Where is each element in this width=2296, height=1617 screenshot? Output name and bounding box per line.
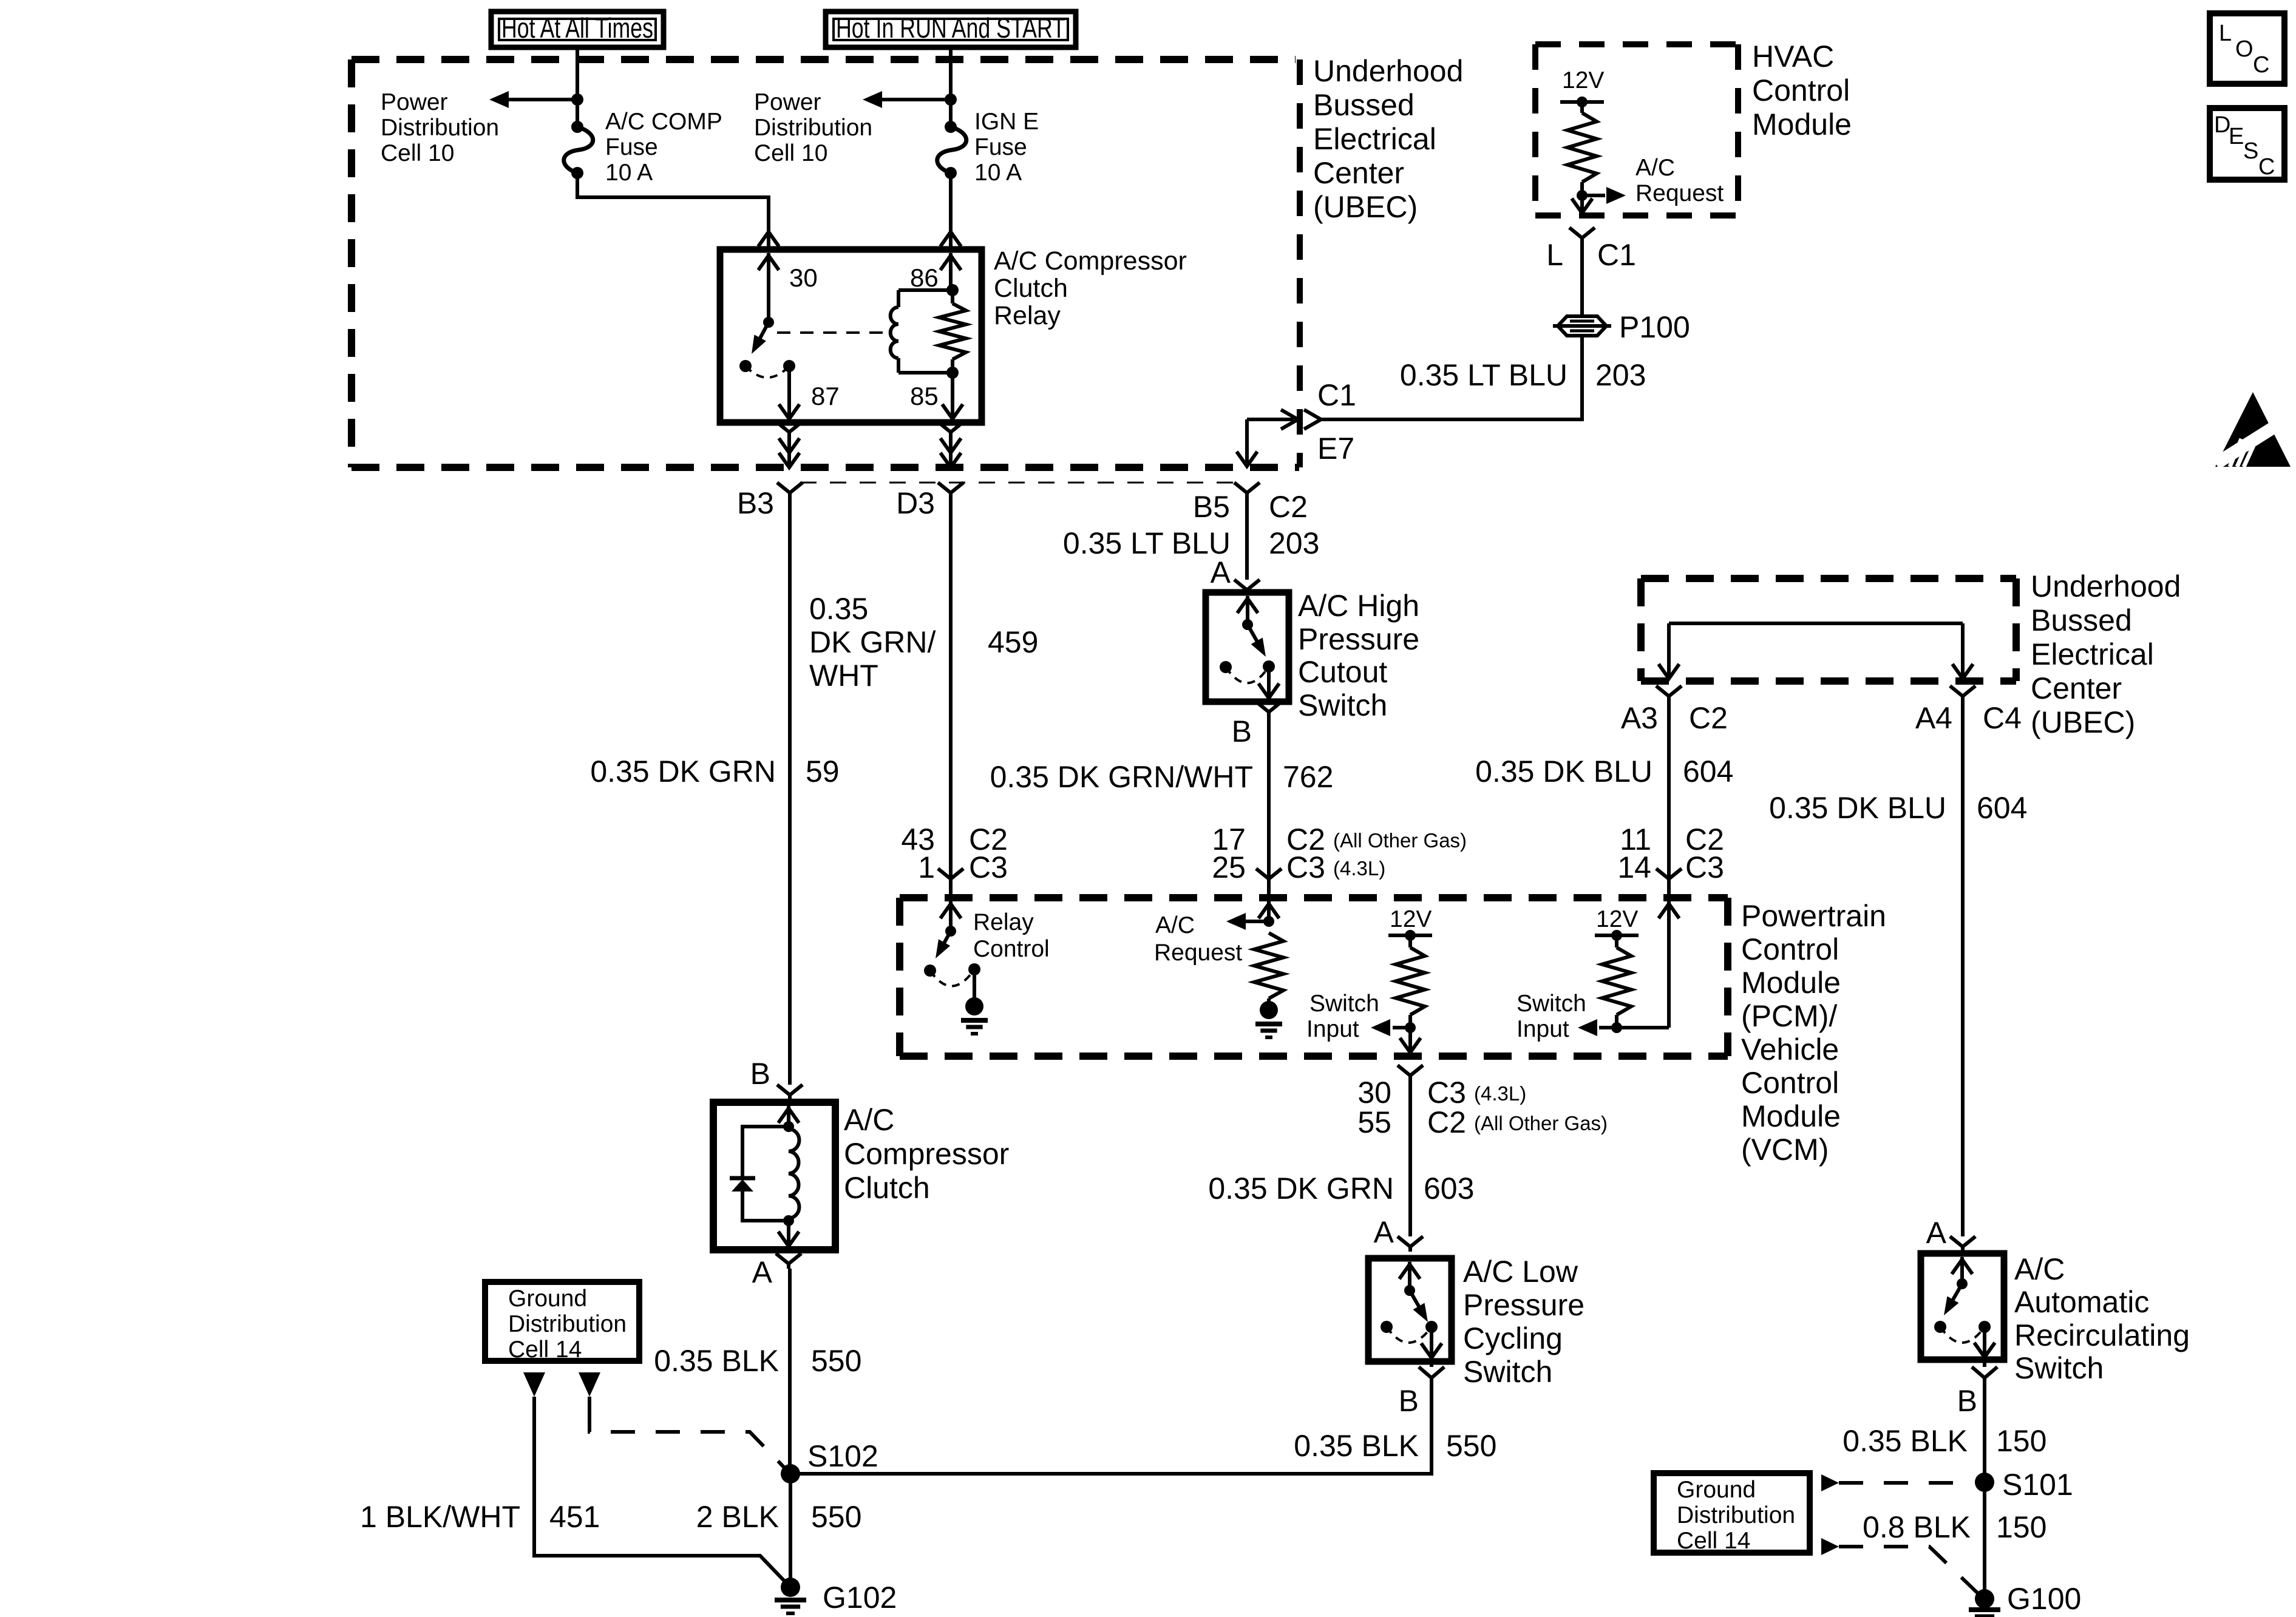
A/C Automatic Recirculating Switch box	[1921, 1253, 2004, 1360]
wire: B3 to A/C Compressor Clutch	[788, 493, 792, 1085]
Ground Distribution Cell 14 box (left)	[485, 1282, 639, 1361]
HP switch dashed arc	[1226, 666, 1269, 683]
UBEC enclosure right (dashed)	[1641, 575, 2016, 582]
svg-text:C3: C3	[1286, 850, 1325, 884]
svg-text:G102: G102	[823, 1581, 897, 1615]
LOC reference box	[2210, 13, 2284, 84]
svg-text:Switch: Switch	[1463, 1355, 1552, 1389]
svg-text:Module: Module	[1752, 107, 1852, 141]
wire: A3 to PCM pin 11	[1667, 703, 1671, 876]
svg-text:B: B	[1399, 1384, 1419, 1418]
arrow down to S102 dashed wire	[579, 1372, 600, 1397]
svg-text:550: 550	[1446, 1429, 1496, 1463]
ESD warning symbol	[2215, 392, 2291, 467]
svg-text:Module: Module	[1741, 966, 1841, 1000]
svg-text:C2: C2	[1427, 1105, 1466, 1139]
svg-text:C3: C3	[1427, 1076, 1466, 1110]
svg-text:Hot At All Times: Hot At All Times	[501, 12, 653, 44]
PCM relay control dashed arc	[930, 969, 974, 986]
PCM switch input left exit arrow	[1408, 1028, 1412, 1053]
svg-text:WHT: WHT	[809, 659, 878, 693]
svg-text:Pressure: Pressure	[1463, 1288, 1584, 1322]
svg-text:C: C	[2253, 52, 2269, 78]
svg-text:B3: B3	[737, 486, 774, 520]
connector pin L	[1569, 228, 1595, 248]
splice S102	[781, 1464, 800, 1483]
connector A3 C2	[1656, 686, 1682, 703]
svg-text:1 BLK/WHT: 1 BLK/WHT	[360, 1500, 520, 1534]
connector B of recirc switch	[1972, 1367, 1997, 1387]
svg-text:S101: S101	[2002, 1468, 2073, 1502]
HVAC pull-up resistor	[1580, 102, 1584, 113]
svg-text:P100: P100	[1619, 310, 1690, 344]
UBEC bus drop A3	[1667, 623, 1671, 679]
clutch coil node bottom	[783, 1215, 794, 1226]
svg-text:Cell 14: Cell 14	[1677, 1528, 1750, 1554]
wire: switch input right to pin 11	[1617, 1026, 1669, 1029]
svg-text:Distribution: Distribution	[381, 115, 499, 141]
svg-text:A/C: A/C	[844, 1103, 894, 1137]
svg-text:12V: 12V	[1562, 67, 1604, 93]
svg-text:203: 203	[1269, 526, 1319, 560]
svg-text:0.35 BLK: 0.35 BLK	[1294, 1429, 1419, 1463]
svg-text:Ground: Ground	[508, 1286, 587, 1312]
svg-text:C1: C1	[1597, 238, 1636, 272]
svg-text:E: E	[2229, 124, 2244, 149]
svg-text:DK GRN/: DK GRN/	[809, 625, 936, 659]
svg-text:Fuse: Fuse	[605, 134, 658, 160]
svg-text:459: 459	[988, 625, 1038, 659]
LP switch exit arrow	[1430, 1327, 1433, 1358]
recirc switch dashed arc	[1940, 1327, 1985, 1343]
wire: HVAC pin L exit	[1580, 195, 1584, 213]
relay coil resistor	[951, 290, 954, 303]
inline connector P100	[1558, 316, 1606, 336]
wire: HP switch B down to PCM	[1267, 716, 1271, 876]
svg-text:Bussed: Bussed	[1313, 88, 1415, 122]
svg-text:A: A	[1926, 1216, 1947, 1250]
wire+arrow into E7	[1247, 418, 1294, 421]
PCM A/C request pull-down resistor	[1254, 933, 1283, 998]
relay coil	[897, 290, 900, 307]
connector row C2 (thin dashed)	[800, 482, 1235, 484]
connector A of recirc switch	[1950, 1236, 1975, 1252]
wire: PCM to A/C Low Pressure Cycling Switch	[1408, 1082, 1412, 1236]
clutch coil node top	[783, 1121, 794, 1132]
PCM A/C request entry arrow	[1267, 901, 1271, 921]
svg-text:Distribution: Distribution	[754, 115, 872, 141]
svg-text:(VCM): (VCM)	[1741, 1133, 1829, 1167]
wire: B5 to A/C High Pressure Cutout Switch	[1245, 493, 1249, 580]
svg-text:10 A: 10 A	[974, 160, 1022, 186]
wire: recirc B to S101	[1983, 1387, 1986, 1482]
svg-text:150: 150	[1996, 1510, 2046, 1544]
svg-text:L: L	[1546, 238, 1563, 272]
PCM/VCM box (dashed)	[900, 894, 1728, 901]
svg-text:Power: Power	[754, 89, 821, 115]
dashed wire: ground distribution to S101	[1839, 1481, 1972, 1485]
wire: Hot In RUN And START to fuse	[949, 47, 953, 127]
svg-text:A/C Low: A/C Low	[1463, 1255, 1578, 1289]
svg-text:B: B	[1957, 1384, 1977, 1418]
arrow: A/C Request (PCM)	[1246, 920, 1269, 923]
connector B of HP switch	[1256, 702, 1282, 716]
DESC reference box	[2210, 108, 2284, 180]
svg-text:A: A	[1374, 1215, 1394, 1249]
svg-text:10 A: 10 A	[605, 160, 653, 186]
A/C Compressor Clutch box	[713, 1102, 835, 1250]
svg-text:Control: Control	[1752, 73, 1850, 107]
svg-text:HVAC: HVAC	[1752, 39, 1834, 73]
recirc switch entry arrow	[1960, 1257, 1964, 1284]
svg-text:Input: Input	[1517, 1016, 1569, 1042]
svg-text:Request: Request	[1635, 180, 1724, 206]
fuse: IGN E Fuse 10 A	[945, 121, 957, 133]
wire: E7 down to UBEC boundary	[1245, 419, 1249, 466]
svg-text:Request: Request	[1154, 940, 1242, 966]
arrow right to S101 wire	[1821, 1474, 1839, 1491]
svg-text:C3: C3	[969, 850, 1008, 884]
svg-text:0.35 BLK: 0.35 BLK	[1843, 1424, 1968, 1458]
svg-text:IGN E: IGN E	[974, 109, 1039, 135]
wire: S101 to G100	[1983, 1482, 1986, 1599]
svg-text:0.8 BLK: 0.8 BLK	[1863, 1510, 1971, 1544]
svg-text:Cutout: Cutout	[1298, 655, 1387, 689]
svg-text:(PCM)/: (PCM)/	[1741, 999, 1837, 1033]
wire: L to P100	[1580, 238, 1584, 316]
svg-text:2 BLK: 2 BLK	[696, 1500, 779, 1534]
svg-text:Center: Center	[2031, 671, 2122, 705]
arrow right to G100 wire	[1821, 1538, 1839, 1555]
svg-text:(All Other Gas): (All Other Gas)	[1474, 1112, 1608, 1134]
svg-text:A/C Compressor: A/C Compressor	[994, 246, 1187, 276]
wire: relay 87 to UBEC boundary	[776, 422, 802, 442]
arrow: Switch Input (right)	[1599, 1026, 1617, 1029]
svg-text:1: 1	[918, 850, 935, 884]
svg-text:0.35 LT BLU: 0.35 LT BLU	[1400, 358, 1567, 392]
connector 43/1 to PCM	[938, 869, 963, 889]
LP switch entry arrow	[1408, 1262, 1411, 1290]
connector 11/14 to PCM	[1656, 869, 1682, 889]
svg-text:Module: Module	[1741, 1099, 1841, 1133]
svg-text:Switch: Switch	[2014, 1351, 2104, 1385]
PCM right 12V rail	[1595, 934, 1639, 937]
connector A of HP switch	[1234, 580, 1260, 592]
svg-text:0.35: 0.35	[809, 592, 868, 626]
wire: Hot At All Times to fuse	[576, 47, 579, 127]
svg-text:A: A	[752, 1255, 773, 1289]
svg-text:Powertrain: Powertrain	[1741, 899, 1886, 933]
relay coil node bottom	[946, 367, 959, 379]
wire: fuse to relay pin 30	[577, 173, 769, 232]
clutch exit arrow	[787, 1221, 790, 1246]
svg-text:14: 14	[1617, 850, 1651, 884]
svg-text:Underhood: Underhood	[1313, 54, 1463, 88]
svg-text:Automatic: Automatic	[2014, 1285, 2149, 1319]
arrow down to 451 wire	[523, 1372, 545, 1397]
svg-text:Cycling: Cycling	[1463, 1321, 1563, 1355]
svg-text:A3: A3	[1621, 701, 1658, 735]
svg-text:0.35 DK BLU: 0.35 DK BLU	[1475, 754, 1652, 788]
relay K1 A/C Compressor Clutch Relay (box)	[720, 249, 982, 422]
wire: D3 to PCM	[949, 493, 953, 876]
ground G100	[1975, 1589, 1994, 1609]
recirc switch exit arrow	[1983, 1327, 1986, 1357]
svg-text:Control: Control	[1741, 1066, 1839, 1100]
connector at relay pin 86	[940, 232, 961, 246]
connector 30/55 below PCM	[1398, 1065, 1423, 1082]
LP switch arm	[1404, 1285, 1415, 1296]
svg-text:C4: C4	[1983, 701, 2022, 735]
UBEC internal bus	[1669, 622, 1963, 625]
A/C High Pressure Cutout Switch box	[1206, 592, 1289, 702]
svg-text:Relay: Relay	[994, 301, 1061, 330]
svg-text:C1: C1	[1317, 378, 1356, 412]
svg-text:451: 451	[549, 1500, 600, 1534]
svg-text:E7: E7	[1317, 432, 1354, 466]
svg-text:85: 85	[910, 382, 939, 410]
relay pin 87 arrow	[787, 366, 791, 419]
svg-text:C: C	[2258, 154, 2275, 180]
connector B of LP switch	[1419, 1367, 1444, 1386]
connector B of clutch	[777, 1085, 803, 1100]
svg-text:0.35 LT BLU: 0.35 LT BLU	[1063, 526, 1231, 560]
svg-text:C3: C3	[1685, 850, 1724, 884]
HP switch entry arrow	[1246, 596, 1249, 625]
svg-text:Distribution: Distribution	[508, 1311, 627, 1337]
wire: ground distribution 451 to G102	[534, 1397, 790, 1587]
svg-text:Cell 10: Cell 10	[381, 140, 454, 166]
connector 17/25 to PCM	[1256, 869, 1282, 889]
svg-text:Distribution: Distribution	[1677, 1502, 1795, 1528]
recirc switch arm	[1957, 1278, 1968, 1289]
svg-text:Clutch: Clutch	[994, 274, 1068, 303]
svg-text:12V: 12V	[1596, 906, 1638, 932]
svg-text:Input: Input	[1306, 1016, 1359, 1042]
svg-text:87: 87	[811, 382, 840, 410]
svg-text:150: 150	[1996, 1424, 2046, 1458]
svg-text:C2: C2	[1689, 701, 1728, 735]
svg-text:25: 25	[1212, 850, 1246, 884]
HP switch arm	[1242, 619, 1253, 630]
svg-text:0.35 DK BLU: 0.35 DK BLU	[1769, 791, 1946, 825]
clutch diode branch	[742, 1127, 789, 1221]
svg-text:12V: 12V	[1390, 906, 1432, 932]
arrow: to Power Distribution Cell 10 (left)	[508, 98, 577, 101]
arrow: to Power Distribution Cell 10 (right)	[881, 98, 951, 101]
svg-text:Power: Power	[381, 89, 448, 115]
connector half C1 side	[1304, 410, 1321, 429]
svg-text:550: 550	[811, 1500, 861, 1534]
svg-text:A/C: A/C	[1155, 912, 1195, 938]
svg-text:30: 30	[1357, 1076, 1391, 1110]
node: A/C request (PCM)	[1263, 916, 1274, 927]
svg-text:(UBEC): (UBEC)	[2031, 705, 2135, 739]
relay switch arm	[763, 317, 774, 328]
fuse: A/C COMP Fuse 10 A	[571, 121, 583, 133]
svg-text:L: L	[2219, 21, 2232, 46]
wire: clutch A to S102	[788, 1269, 792, 1474]
svg-text:604: 604	[1977, 791, 2027, 825]
svg-text:B5: B5	[1193, 490, 1230, 524]
UBEC enclosure (dashed)	[352, 56, 1296, 63]
svg-text:(4.3L): (4.3L)	[1333, 857, 1385, 880]
connector D3	[938, 483, 963, 503]
svg-text:Switch: Switch	[1517, 991, 1586, 1017]
relay pin 86 arrow	[949, 253, 953, 290]
relay coil node top	[946, 284, 959, 296]
svg-text:Bussed: Bussed	[2031, 603, 2132, 637]
svg-text:Ground: Ground	[1677, 1477, 1756, 1503]
wire: relay 85 to UBEC boundary	[938, 422, 963, 442]
svg-text:B: B	[1232, 714, 1252, 748]
node: A/C Request output (HVAC)	[1577, 190, 1588, 201]
node: switch input left	[1405, 1022, 1416, 1033]
splice S101	[1975, 1473, 1994, 1492]
svg-text:0.35 DK GRN: 0.35 DK GRN	[590, 754, 776, 788]
svg-text:Underhood: Underhood	[2031, 569, 2181, 603]
connector B5	[1234, 483, 1260, 503]
connector A of clutch	[776, 1253, 801, 1269]
svg-text:Pressure: Pressure	[1298, 622, 1419, 656]
svg-text:A/C: A/C	[1635, 155, 1675, 181]
svg-text:604: 604	[1683, 754, 1733, 788]
svg-text:B: B	[750, 1057, 770, 1091]
svg-text:A/C High: A/C High	[1298, 589, 1419, 623]
svg-text:203: 203	[1595, 358, 1646, 392]
svg-text:(4.3L): (4.3L)	[1474, 1082, 1526, 1105]
svg-text:Cell 14: Cell 14	[508, 1337, 582, 1363]
arrow: A/C Request (HVAC)	[1582, 194, 1605, 197]
relay switch-coil dashed link	[777, 331, 885, 334]
node: junction right power distribution	[945, 93, 957, 106]
svg-text:59: 59	[806, 754, 840, 788]
dashed wire: ground distribution to G100	[1839, 1547, 1978, 1593]
clutch diode	[730, 1176, 755, 1181]
label box "Hot In RUN And START"	[826, 12, 1076, 47]
LP switch dashed arc	[1387, 1327, 1432, 1343]
svg-text:55: 55	[1357, 1105, 1391, 1139]
node: junction left power distribution	[571, 93, 583, 106]
label box "Hot At All Times"	[491, 12, 664, 47]
svg-text:Clutch: Clutch	[844, 1171, 930, 1205]
svg-text:Cell 10: Cell 10	[754, 140, 827, 166]
connector B3	[777, 483, 803, 503]
svg-text:S102: S102	[807, 1439, 878, 1473]
ground G102	[781, 1578, 800, 1597]
svg-text:762: 762	[1283, 760, 1333, 794]
svg-text:30: 30	[789, 263, 818, 292]
svg-text:550: 550	[811, 1344, 861, 1378]
HVAC Control Module box (dashed)	[1535, 41, 1738, 47]
PCM A/C request ground	[1267, 998, 1271, 1003]
svg-text:G100: G100	[2007, 1582, 2081, 1616]
svg-text:Control: Control	[973, 936, 1050, 962]
svg-text:Control: Control	[1741, 932, 1839, 966]
svg-text:A/C COMP: A/C COMP	[605, 109, 722, 135]
svg-text:0.35 DK GRN: 0.35 DK GRN	[1208, 1171, 1394, 1205]
wire: A4 to recirc switch	[1961, 703, 1965, 1236]
connector A4 C4	[1950, 686, 1975, 703]
wire: fuse to relay pin 86	[949, 173, 953, 232]
node: switch input right	[1611, 1022, 1622, 1033]
relay pin 30 arrow	[767, 253, 770, 322]
svg-text:Hot In RUN And START: Hot In RUN And START	[836, 12, 1065, 44]
wire: P100 down and across to E7	[1321, 336, 1582, 419]
svg-text:603: 603	[1424, 1171, 1474, 1205]
svg-text:A/C: A/C	[2014, 1252, 2065, 1286]
HVAC 12V rail	[1560, 100, 1604, 104]
svg-text:Vehicle: Vehicle	[1741, 1032, 1839, 1066]
svg-text:Relay: Relay	[973, 909, 1034, 935]
svg-text:Electrical: Electrical	[1313, 122, 1436, 156]
PCM relay control ground	[973, 969, 976, 999]
svg-text:Center: Center	[1313, 156, 1404, 190]
PCM relay control entry arrow	[949, 901, 953, 931]
dashed wire: ground distribution to S102	[588, 1397, 591, 1408]
svg-text:A4: A4	[1915, 701, 1952, 735]
relay pin 85 arrow	[951, 373, 954, 419]
svg-text:Switch: Switch	[1298, 688, 1387, 722]
svg-text:0.35 BLK: 0.35 BLK	[654, 1344, 779, 1378]
svg-text:Compressor: Compressor	[844, 1137, 1009, 1171]
svg-text:Electrical: Electrical	[2031, 637, 2154, 671]
relay switch dashed arc	[746, 366, 789, 378]
PCM right pull-up resistor	[1615, 935, 1618, 947]
svg-text:Fuse: Fuse	[974, 134, 1027, 160]
svg-text:86: 86	[910, 263, 939, 292]
svg-text:(UBEC): (UBEC)	[1313, 190, 1418, 224]
wire: LP switch B to S102	[790, 1386, 1432, 1474]
svg-text:S: S	[2243, 138, 2258, 164]
PCM left pull-up resistor	[1408, 935, 1412, 947]
PCM left 12V rail	[1388, 934, 1432, 937]
svg-text:A: A	[1211, 555, 1231, 589]
svg-text:(All Other Gas): (All Other Gas)	[1333, 829, 1467, 852]
svg-text:Switch: Switch	[1309, 991, 1379, 1017]
PCM relay control switch arm	[945, 926, 956, 937]
Ground Distribution Cell 14 box (right)	[1654, 1473, 1810, 1553]
svg-text:C2: C2	[1269, 490, 1308, 524]
connector at relay pin 30	[758, 232, 779, 246]
svg-text:O: O	[2235, 36, 2254, 62]
wire: S102 to G102	[789, 1474, 792, 1587]
svg-text:Recirculating: Recirculating	[2014, 1318, 2190, 1352]
HP switch exit arrow	[1267, 666, 1271, 698]
clutch coil	[789, 1129, 799, 1218]
arrow: Switch Input (left)	[1393, 1026, 1410, 1029]
connector A of LP switch	[1398, 1236, 1423, 1252]
svg-text:D3: D3	[896, 486, 935, 520]
clutch entry arrow	[787, 1106, 790, 1127]
A/C Low Pressure Cycling Switch box	[1368, 1258, 1452, 1361]
UBEC bus drop A4	[1961, 623, 1965, 679]
svg-text:0.35 DK GRN/WHT: 0.35 DK GRN/WHT	[990, 760, 1253, 794]
